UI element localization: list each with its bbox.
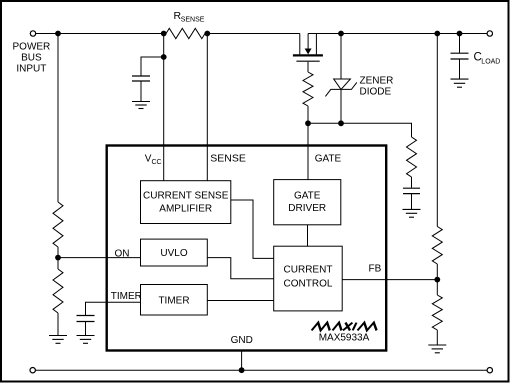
svg-text:BUS: BUS — [21, 53, 42, 64]
ground: FB divider — [428, 345, 446, 353]
wire: amplifier to current control — [231, 200, 274, 258]
wire: TIMER to current control — [207, 300, 273, 302]
zener diode D1 — [325, 34, 356, 124]
node: ON divider junction — [55, 255, 61, 261]
wire: GATE pin to gate driver — [307, 123, 309, 179]
wire: RC resistor to cap — [411, 177, 413, 188]
block: GATE DRIVER — [274, 180, 341, 225]
wire: timer cap to ground — [85, 322, 87, 336]
svg-text:SENSE: SENSE — [181, 17, 205, 24]
ground: timer cap — [77, 336, 95, 344]
label: ZENER DIODE — [360, 76, 394, 98]
capacitor CLOAD — [451, 53, 469, 59]
wire: SENSE line — [206, 34, 208, 182]
resistor RSENSE — [166, 28, 205, 38]
svg-text:TIMER: TIMER — [111, 291, 142, 302]
node: gate node zener junction — [338, 120, 344, 126]
wire: bypass cap to ground — [140, 81, 142, 101]
block: TIMER — [141, 285, 208, 316]
svg-text:FB: FB — [369, 264, 382, 275]
node: return terminal left — [30, 368, 35, 373]
wire: TIMER line — [86, 302, 141, 315]
svg-text:CC: CC — [152, 159, 162, 166]
wire: top rail right segment — [308, 33, 487, 35]
resistor: FB divider upper — [432, 227, 442, 265]
wire: gate driver to current control — [307, 225, 309, 246]
svg-text:ZENER: ZENER — [360, 76, 394, 87]
node: bypass cap junction — [161, 54, 167, 60]
wire: UVLO to current control — [207, 258, 273, 279]
wire: CLOAD to ground — [459, 59, 461, 79]
svg-text:SENSE: SENSE — [210, 153, 246, 165]
wire: top rail left segment — [36, 33, 166, 35]
resistor: gate RC network — [407, 137, 417, 177]
node: output terminal — [487, 31, 492, 36]
svg-text:CONTROL: CONTROL — [284, 279, 333, 290]
resistor: upper divider (left) — [53, 202, 63, 247]
capacitor: VCC bypass — [132, 76, 150, 81]
svg-text:ON: ON — [115, 249, 130, 260]
resistor: FB divider lower — [432, 295, 442, 330]
svg-text:CURRENT: CURRENT — [284, 265, 333, 276]
wire: FB node segments — [436, 264, 438, 295]
svg-text:MAX5933A: MAX5933A — [319, 333, 370, 344]
node: VCC tap junction — [161, 31, 167, 37]
resistor: gate series — [303, 72, 313, 106]
block: CURRENT SENSE AMPLIFIER — [141, 181, 231, 224]
label: POWER BUS INPUT — [13, 42, 51, 75]
svg-text:CURRENT SENSE: CURRENT SENSE — [143, 191, 229, 202]
svg-text:UVLO: UVLO — [160, 248, 187, 259]
svg-text:AMPLIFIER: AMPLIFIER — [159, 204, 212, 215]
wire: divider junction — [57, 247, 59, 269]
svg-text:GATE: GATE — [294, 191, 321, 202]
label: RSENSE — [174, 10, 205, 24]
wire: gate resistor to gate node — [307, 106, 309, 123]
wire: bottom return rail — [36, 369, 488, 371]
node: CLOAD junction — [457, 31, 463, 37]
logo: MAXIM — [312, 323, 379, 331]
node: FB junction — [434, 277, 440, 283]
wire: RC cap to ground — [411, 194, 413, 210]
capacitor: timer — [77, 316, 95, 322]
node: input junction — [55, 31, 61, 37]
wire: FB line — [342, 279, 437, 281]
svg-text:LOAD: LOAD — [481, 59, 500, 66]
svg-text:GATE: GATE — [315, 154, 342, 165]
IC U1 MAX5933A outline — [107, 146, 387, 351]
node: GND rail junction — [239, 367, 245, 373]
svg-text:POWER: POWER — [13, 42, 51, 53]
wire: left bus vertical — [57, 34, 59, 203]
ground: left divider — [49, 336, 67, 344]
svg-text:INPUT: INPUT — [16, 64, 46, 75]
wire: lower divider to ground — [57, 313, 59, 335]
wire: ON line — [58, 257, 141, 259]
svg-text:DRIVER: DRIVER — [288, 203, 326, 214]
svg-text:DIODE: DIODE — [360, 87, 392, 98]
node: zener top junction — [338, 31, 344, 37]
wire: gate node horizontal — [308, 123, 412, 137]
wire: GND pin to return rail — [241, 351, 243, 371]
ground: CLOAD — [451, 79, 469, 87]
wire: output vertical to divider — [436, 34, 438, 227]
svg-text:GND: GND — [231, 335, 253, 346]
node: POWER BUS INPUT terminal — [30, 31, 35, 36]
resistor: lower divider (left) — [53, 269, 63, 313]
svg-text:TIMER: TIMER — [158, 296, 189, 307]
pin label: VCC — [145, 154, 162, 167]
wire: bypass cap tap — [141, 57, 164, 76]
block: UVLO — [141, 239, 208, 266]
label: CLOAD — [474, 52, 501, 66]
wire: VCC line with bypass tap — [163, 34, 165, 182]
capacitor: gate RC network — [403, 188, 420, 193]
wire: MOSFET gate lead — [307, 62, 309, 72]
wire: top rail right of RSENSE — [205, 33, 300, 35]
wire: FB divider to ground — [436, 330, 438, 345]
wire: CLOAD lead — [459, 34, 461, 53]
node: gate node left junction — [305, 120, 311, 126]
node: return terminal right — [487, 368, 492, 373]
ground: gate RC network — [403, 209, 421, 217]
node: output rail junction — [434, 31, 440, 37]
transistor Q1 pass MOSFET — [293, 34, 323, 62]
node: SENSE tap junction — [204, 31, 210, 37]
block: CURRENT CONTROL — [274, 246, 343, 311]
ground: VCC bypass — [132, 102, 150, 109]
